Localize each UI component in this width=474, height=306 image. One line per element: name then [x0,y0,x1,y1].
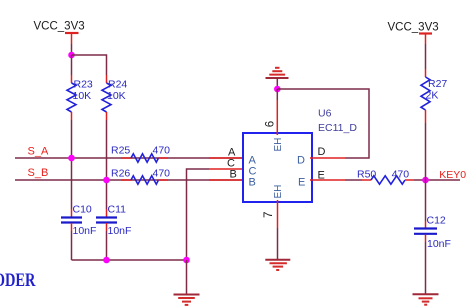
wire VCC_3V3 down to junction [71,44,73,55]
svg-text:2K: 2K [426,90,439,102]
node pin6/ground junction dot [274,86,281,93]
wire down to left ground [186,260,188,294]
resistor R50 470 [357,168,414,184]
wire R24 bottom to S_B node and down to C11 [106,120,108,209]
op-amp U6 component box EC11_D [243,133,312,202]
power symbol VCC_3V3 (right) [388,22,439,45]
wire E to R50 [345,179,362,181]
svg-text:R25: R25 [111,145,130,157]
svg-text:KEY0: KEY0 [439,169,466,181]
svg-text:470: 470 [392,168,410,180]
svg-text:C10: C10 [73,204,92,216]
svg-text:EH: EH [273,138,284,152]
node KEY0 junction dot [422,177,429,184]
capacitor C12 10nF [414,215,451,251]
svg-text:B: B [249,177,256,189]
pin B stub (red) [209,179,245,181]
node S_B junction dot [103,177,110,184]
ground (left bottom) [174,295,200,305]
node VCC junction dot [68,52,75,59]
pin 7 stub (red) [277,200,279,259]
wire C11 down [106,231,108,260]
svg-text:10nF: 10nF [73,225,97,237]
ground (top, inverted) [266,68,289,78]
svg-text:10K: 10K [73,90,92,102]
svg-text:R27: R27 [428,78,447,90]
svg-text:VCC_3V3: VCC_3V3 [34,21,85,33]
node C11 rail junction dot [103,257,110,264]
svg-text:C11: C11 [108,204,127,216]
svg-text:ODER: ODER [0,269,36,290]
svg-text:D: D [318,146,326,158]
pin C stub (red) [209,168,245,170]
wire VCC to R27 [425,44,427,69]
wire C12 down to right ground [425,242,427,294]
power symbol VCC_3V3 (left) [34,21,85,45]
ground (right bottom) [413,294,439,304]
wire C pin to ground rail [187,169,210,260]
node S_A junction dot [68,155,75,162]
pin D stub (red) [310,157,345,159]
svg-text:470: 470 [153,168,171,180]
svg-text:C12: C12 [427,215,446,227]
svg-text:B: B [230,169,237,181]
svg-text:R26: R26 [111,168,130,180]
wire VCC rail to R24 branch [72,55,107,75]
wire net S_A horizontal [15,157,243,159]
wire C10 down [71,231,73,260]
wire R27 to KEY0 node [425,123,427,180]
wire top ground to junction [276,78,278,89]
svg-text:7: 7 [263,212,275,218]
capacitor C11 10nF [96,204,131,238]
resistor R25 470 [111,145,170,163]
resistor R27 2K [421,69,447,123]
svg-text:6: 6 [265,121,277,127]
resistor R24 10K [102,75,127,120]
wire VCC to R23 top [71,55,73,75]
resistor R23 10K [67,75,93,120]
svg-text:EC11_D: EC11_D [318,122,357,134]
pin 6 stub (red) [276,89,278,135]
svg-text:R24: R24 [108,79,127,91]
svg-text:10nF: 10nF [427,238,451,250]
capacitor C10 10nF [61,204,96,238]
wire KEY0 node down to C12 [425,180,427,221]
svg-text:R23: R23 [74,79,93,91]
node rail/ground junction dot [183,257,190,264]
wire ground rail horizontal [72,259,187,261]
wire ground loop to pin D [277,89,369,158]
svg-text:S_A: S_A [28,146,49,158]
wire R50 to KEY0 [414,179,460,181]
svg-text:U6: U6 [318,108,332,120]
svg-text:470: 470 [153,145,171,157]
pin E stub (red) [310,179,345,181]
resistor R26 470 [111,168,170,185]
pin A stub (red) [209,157,245,159]
svg-text:10K: 10K [107,90,126,102]
svg-text:S_B: S_B [28,167,49,179]
svg-text:10nF: 10nF [108,225,132,237]
svg-text:VCC_3V3: VCC_3V3 [388,22,439,34]
wire net S_B horizontal [15,179,243,181]
svg-text:E: E [298,177,305,189]
wire R23 bottom to S_A node and down to C10 [71,120,73,209]
ground (center bottom) [265,260,290,270]
svg-text:EH: EH [273,185,284,199]
svg-text:R50: R50 [357,168,376,180]
svg-text:D: D [297,155,305,167]
